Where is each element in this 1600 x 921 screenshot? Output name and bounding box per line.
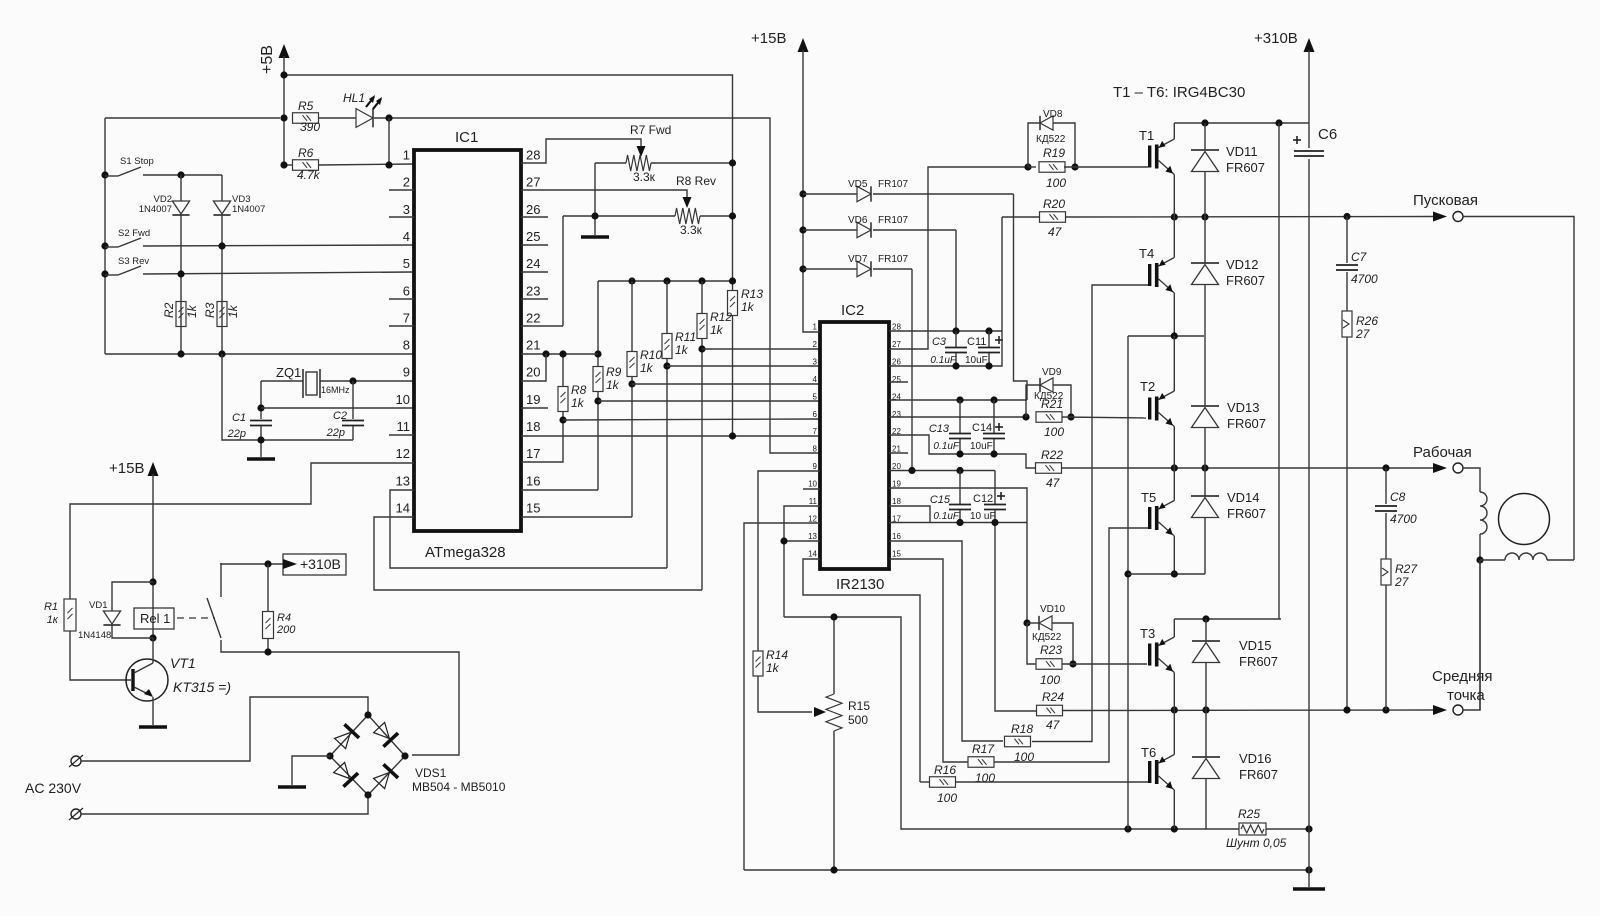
- svg-text:9: 9: [813, 462, 818, 471]
- svg-text:R22: R22: [1041, 448, 1063, 462]
- svg-text:4: 4: [403, 229, 410, 244]
- svg-text:28: 28: [526, 148, 540, 163]
- svg-text:Пусковая: Пусковая: [1413, 192, 1478, 209]
- svg-text:14: 14: [396, 500, 410, 515]
- svg-text:100: 100: [1040, 673, 1060, 687]
- svg-text:13: 13: [396, 473, 410, 488]
- svg-text:1к: 1к: [47, 614, 59, 626]
- svg-text:15: 15: [892, 549, 901, 558]
- svg-text:7: 7: [813, 427, 818, 436]
- svg-text:10uF: 10uF: [970, 441, 993, 452]
- svg-text:IC1: IC1: [455, 129, 478, 146]
- svg-text:16: 16: [526, 473, 540, 488]
- svg-text:22p: 22p: [326, 427, 345, 439]
- svg-text:+310B: +310B: [300, 556, 341, 572]
- svg-text:C7: C7: [1351, 250, 1368, 264]
- svg-text:S1 Stop: S1 Stop: [120, 156, 154, 167]
- svg-text:9: 9: [403, 365, 410, 380]
- svg-text:27: 27: [526, 175, 540, 190]
- svg-text:КД522: КД522: [1034, 391, 1064, 402]
- svg-text:1N4007: 1N4007: [232, 204, 265, 215]
- svg-text:390: 390: [300, 120, 320, 134]
- svg-text:R15: R15: [848, 699, 870, 713]
- svg-text:T2: T2: [1140, 379, 1155, 394]
- svg-text:1k: 1k: [571, 396, 585, 410]
- svg-text:КД522: КД522: [1036, 134, 1066, 145]
- svg-text:0.1uF: 0.1uF: [933, 511, 959, 522]
- svg-text:1N4148: 1N4148: [78, 630, 111, 641]
- svg-text:1k: 1k: [710, 323, 724, 337]
- svg-text:FR107: FR107: [878, 179, 908, 190]
- svg-text:C13: C13: [929, 423, 950, 435]
- svg-text:VT1: VT1: [170, 655, 196, 671]
- svg-text:11: 11: [809, 497, 818, 506]
- svg-text:8: 8: [403, 338, 410, 353]
- svg-text:1N4007: 1N4007: [139, 204, 172, 215]
- svg-text:R13: R13: [741, 287, 763, 301]
- svg-text:R25: R25: [1238, 807, 1260, 821]
- svg-text:27: 27: [1394, 575, 1410, 589]
- svg-text:FR607: FR607: [1239, 654, 1278, 669]
- svg-text:3: 3: [813, 357, 818, 366]
- svg-text:FR607: FR607: [1227, 416, 1266, 431]
- svg-text:3: 3: [403, 202, 410, 217]
- svg-text:17: 17: [526, 446, 540, 461]
- svg-text:10: 10: [808, 480, 817, 489]
- svg-text:C15: C15: [930, 494, 951, 506]
- svg-text:+15B: +15B: [109, 460, 144, 477]
- svg-text:19: 19: [892, 480, 901, 489]
- svg-text:1: 1: [403, 148, 410, 163]
- svg-text:C2: C2: [333, 410, 347, 422]
- svg-text:Средняя: Средняя: [1432, 668, 1492, 685]
- svg-text:R20: R20: [1043, 197, 1065, 211]
- svg-text:12: 12: [396, 446, 410, 461]
- svg-text:C1: C1: [232, 412, 246, 424]
- svg-text:S2 Fwd: S2 Fwd: [118, 228, 150, 239]
- svg-text:VD13: VD13: [1227, 400, 1260, 415]
- svg-text:T1: T1: [1139, 128, 1154, 143]
- svg-text:VD11: VD11: [1226, 144, 1258, 159]
- svg-text:4700: 4700: [1390, 512, 1417, 526]
- svg-text:R18: R18: [1011, 722, 1033, 736]
- svg-text:200: 200: [276, 624, 296, 636]
- svg-text:R19: R19: [1043, 146, 1065, 160]
- svg-text:100: 100: [1044, 425, 1064, 439]
- svg-text:11: 11: [397, 419, 411, 434]
- svg-text:5: 5: [403, 256, 410, 271]
- svg-text:VD12: VD12: [1226, 257, 1259, 272]
- svg-text:1k: 1k: [640, 361, 654, 375]
- svg-text:VD5: VD5: [848, 179, 868, 190]
- svg-text:C8: C8: [1390, 490, 1406, 504]
- svg-text:VDS1: VDS1: [415, 766, 447, 780]
- svg-text:500: 500: [848, 713, 868, 727]
- svg-text:19: 19: [526, 392, 540, 407]
- svg-text:7: 7: [403, 310, 410, 325]
- svg-text:C6: C6: [1318, 126, 1337, 143]
- svg-text:22p: 22p: [227, 428, 246, 440]
- svg-text:KT315 =): KT315 =): [173, 679, 231, 695]
- svg-text:R9: R9: [606, 365, 622, 379]
- svg-text:R5: R5: [298, 99, 314, 113]
- svg-text:ZQ1: ZQ1: [276, 365, 301, 380]
- svg-text:1k: 1k: [185, 304, 199, 318]
- svg-text:R7 Fwd: R7 Fwd: [630, 123, 671, 137]
- svg-text:6: 6: [813, 410, 818, 419]
- svg-text:23: 23: [526, 283, 540, 298]
- svg-text:27: 27: [1355, 327, 1371, 341]
- svg-text:VD8: VD8: [1043, 109, 1063, 120]
- svg-text:47: 47: [1046, 476, 1061, 490]
- svg-text:100: 100: [975, 771, 995, 785]
- svg-text:R8: R8: [571, 383, 587, 397]
- svg-text:4.7k: 4.7k: [297, 168, 321, 182]
- svg-text:R2: R2: [162, 302, 176, 318]
- svg-text:T1 – T6: IRG4BC30: T1 – T6: IRG4BC30: [1113, 84, 1245, 101]
- svg-text:T6: T6: [1141, 745, 1156, 760]
- svg-text:S3 Rev: S3 Rev: [118, 256, 149, 267]
- svg-text:4700: 4700: [1351, 272, 1378, 286]
- svg-text:T5: T5: [1141, 490, 1156, 505]
- svg-text:27: 27: [892, 340, 901, 349]
- svg-text:3.3к: 3.3к: [680, 223, 703, 237]
- svg-text:20: 20: [526, 365, 540, 380]
- svg-text:IC2: IC2: [841, 302, 864, 319]
- svg-text:R6: R6: [298, 146, 314, 160]
- svg-text:28: 28: [892, 323, 901, 332]
- svg-text:Шунт 0,05: Шунт 0,05: [1226, 836, 1287, 850]
- svg-text:R16: R16: [934, 763, 956, 777]
- svg-text:1: 1: [813, 323, 818, 332]
- svg-text:+310B: +310B: [1254, 30, 1298, 47]
- svg-text:16MHz: 16MHz: [321, 385, 350, 395]
- svg-text:VD14: VD14: [1227, 490, 1260, 505]
- svg-text:4: 4: [813, 375, 818, 384]
- svg-text:FR107: FR107: [878, 254, 908, 265]
- svg-text:16: 16: [892, 532, 901, 541]
- svg-text:R12: R12: [710, 310, 732, 324]
- svg-text:1k: 1k: [226, 304, 240, 318]
- svg-text:100: 100: [1046, 176, 1066, 190]
- svg-text:8: 8: [813, 445, 818, 454]
- svg-text:R23: R23: [1040, 643, 1062, 657]
- svg-text:0.1uF: 0.1uF: [933, 441, 959, 452]
- svg-text:FR107: FR107: [878, 215, 908, 226]
- svg-text:Рабочая: Рабочая: [1413, 444, 1472, 461]
- svg-text:1k: 1k: [606, 378, 620, 392]
- svg-text:25: 25: [526, 229, 540, 244]
- svg-text:C3: C3: [932, 336, 947, 348]
- svg-text:VD7: VD7: [848, 254, 868, 265]
- svg-text:R4: R4: [277, 612, 291, 624]
- svg-text:T3: T3: [1140, 626, 1155, 641]
- svg-text:VD1: VD1: [89, 600, 107, 611]
- svg-text:10: 10: [396, 392, 410, 407]
- svg-text:1k: 1k: [741, 300, 755, 314]
- svg-text:R24: R24: [1042, 690, 1064, 704]
- svg-text:18: 18: [892, 497, 901, 506]
- svg-text:26: 26: [526, 202, 540, 217]
- svg-text:47: 47: [1046, 718, 1061, 732]
- svg-text:100: 100: [937, 791, 957, 805]
- svg-text:КД522: КД522: [1032, 632, 1062, 643]
- svg-text:MB504 - MB5010: MB504 - MB5010: [412, 780, 506, 794]
- svg-text:FR607: FR607: [1239, 767, 1278, 782]
- svg-text:C12: C12: [973, 493, 993, 505]
- svg-text:C14: C14: [972, 422, 992, 434]
- svg-text:12: 12: [808, 514, 817, 523]
- svg-text:R1: R1: [44, 601, 58, 613]
- svg-text:IR2130: IR2130: [836, 576, 884, 593]
- svg-text:10 uF: 10 uF: [970, 511, 996, 522]
- svg-text:R8 Rev: R8 Rev: [676, 174, 716, 188]
- svg-text:1k: 1k: [766, 661, 780, 675]
- svg-text:5: 5: [813, 392, 818, 401]
- svg-text:FR607: FR607: [1226, 160, 1265, 175]
- svg-text:22: 22: [526, 310, 540, 325]
- svg-text:24: 24: [526, 256, 540, 271]
- svg-text:FR607: FR607: [1226, 273, 1265, 288]
- svg-text:VD6: VD6: [848, 215, 868, 226]
- svg-text:3.3к: 3.3к: [633, 170, 656, 184]
- svg-text:6: 6: [403, 283, 410, 298]
- svg-text:R14: R14: [766, 648, 788, 662]
- svg-text:AC 230V: AC 230V: [25, 780, 82, 796]
- svg-text:Rel 1: Rel 1: [140, 611, 170, 626]
- svg-text:R11: R11: [675, 330, 696, 344]
- svg-text:R17: R17: [972, 742, 995, 756]
- svg-text:R10: R10: [640, 348, 662, 362]
- svg-text:HL1: HL1: [343, 91, 365, 105]
- svg-text:VD10: VD10: [1040, 604, 1065, 615]
- svg-text:+5B: +5B: [259, 45, 276, 74]
- svg-text:13: 13: [808, 532, 817, 541]
- svg-text:T4: T4: [1139, 246, 1154, 261]
- svg-text:C11: C11: [967, 336, 986, 348]
- svg-text:VD9: VD9: [1042, 367, 1062, 378]
- svg-text:VD16: VD16: [1239, 751, 1272, 766]
- svg-text:20: 20: [892, 462, 901, 471]
- svg-text:47: 47: [1048, 225, 1063, 239]
- svg-text:26: 26: [892, 357, 901, 366]
- svg-text:18: 18: [526, 419, 540, 434]
- svg-text:15: 15: [526, 500, 540, 515]
- svg-text:R27: R27: [1395, 562, 1418, 576]
- svg-text:R26: R26: [1356, 314, 1378, 328]
- svg-text:21: 21: [526, 338, 540, 353]
- svg-text:1k: 1k: [675, 343, 689, 357]
- svg-text:ATmega328: ATmega328: [425, 544, 506, 561]
- svg-text:R3: R3: [203, 302, 217, 318]
- svg-text:14: 14: [808, 549, 817, 558]
- svg-text:2: 2: [403, 175, 410, 190]
- svg-text:10uF: 10uF: [965, 355, 988, 366]
- svg-text:2: 2: [813, 340, 818, 349]
- svg-text:+15B: +15B: [751, 30, 786, 47]
- svg-text:FR607: FR607: [1227, 506, 1266, 521]
- svg-text:VD15: VD15: [1239, 638, 1272, 653]
